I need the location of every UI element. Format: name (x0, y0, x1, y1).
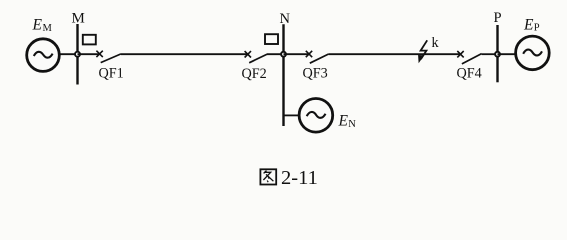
svg-text:E: E (32, 17, 43, 34)
caption character 图 (260, 169, 276, 184)
wire bus M to QF1 (78, 53, 100, 55)
switch blade QF1 (101, 54, 121, 63)
breaker QF4 cross (457, 51, 463, 57)
label E_P (523, 17, 540, 34)
svg-text:QF1: QF1 (99, 66, 124, 82)
bus P (496, 25, 498, 82)
wire bus N to QF3 (284, 53, 310, 55)
svg-text:N: N (348, 119, 356, 130)
svg-text:N: N (280, 11, 291, 27)
node junction at bus M (75, 52, 80, 57)
bus N (282, 24, 284, 126)
label E_M (32, 17, 53, 35)
svg-text:2-11: 2-11 (281, 167, 318, 189)
switch blade QF3 (310, 54, 329, 63)
wire QF1 to QF2 (121, 53, 248, 55)
node junction at bus P (495, 52, 500, 57)
generator E_M (27, 39, 60, 72)
generator E_P (516, 36, 550, 70)
wire bus P to generator E_P (498, 53, 515, 55)
breaker QF1 cross (96, 51, 102, 57)
generator E_N (299, 99, 333, 133)
label E_N (338, 113, 357, 131)
svg-text:P: P (494, 10, 502, 26)
wire QF4 to bus P (482, 53, 498, 55)
relay box at bus N (265, 34, 278, 44)
bus M (76, 24, 78, 85)
node junction at bus N (281, 52, 286, 57)
svg-text:k: k (432, 35, 440, 51)
svg-text:E: E (338, 113, 349, 130)
breaker QF2 cross (245, 51, 251, 57)
switch blade QF2 (249, 54, 267, 63)
svg-text:E: E (523, 17, 534, 34)
wire QF2 to bus N (267, 53, 284, 55)
fault symbol k (lightning arrow) (418, 40, 427, 63)
svg-text:M: M (72, 11, 85, 27)
relay box at bus M (83, 35, 96, 45)
svg-text:QF4: QF4 (457, 66, 482, 82)
switch blade QF4 (462, 54, 482, 64)
svg-text:QF3: QF3 (303, 66, 328, 82)
svg-text:M: M (43, 23, 53, 34)
svg-text:P: P (534, 23, 540, 34)
breaker QF3 cross (306, 51, 312, 57)
svg-text:QF2: QF2 (242, 66, 267, 82)
wire generator E_M to bus M (60, 53, 77, 55)
wire bus N to generator E_N (284, 114, 299, 116)
wire QF3 to QF4 (329, 53, 461, 55)
